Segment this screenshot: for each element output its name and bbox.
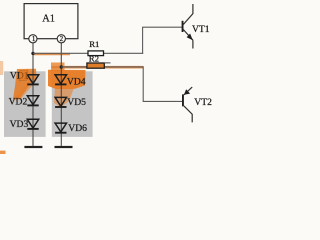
orange marker over the 1 of VD1 <box>19 70 28 81</box>
svg-text:2: 2 <box>60 35 64 43</box>
diode VD2 <box>27 96 38 106</box>
diode VD3 <box>27 119 38 129</box>
svg-text:VD2: VD2 <box>9 97 28 108</box>
resistor R2 (orange highlighted) <box>87 63 104 68</box>
faint orange smudge left edge <box>0 61 3 75</box>
resistor R1 <box>88 51 104 56</box>
transistor VT1 base bar <box>182 21 184 32</box>
bottom terminal bar column 2 <box>55 146 73 148</box>
terminal circle 2 <box>57 35 65 43</box>
node junction under terminal 1 <box>31 52 34 55</box>
orange highlighter streak tail right panel <box>54 88 74 108</box>
diode VD1 <box>27 75 38 85</box>
svg-text:VD6: VD6 <box>68 123 87 134</box>
diode VD5 <box>55 97 66 107</box>
orange highlighter streak tail left panel <box>12 82 33 101</box>
wire R2 to riser <box>104 66 143 68</box>
VT1 emitter with arrow <box>183 30 193 41</box>
diode VD6 <box>55 123 66 133</box>
svg-text:VT2: VT2 <box>194 97 212 108</box>
bottom terminal bar column 1 <box>24 146 42 148</box>
wire from terminal 1 down through diode column 1 <box>32 43 34 146</box>
page background <box>0 0 212 154</box>
transistor VT2 base bar <box>182 94 184 106</box>
wire junction1 to R1 <box>33 52 88 54</box>
svg-text:1: 1 <box>32 35 36 43</box>
orange marker on wire from terminal 1 <box>33 53 70 55</box>
orange highlighter blob over left panel <box>13 69 37 100</box>
svg-text:A1: A1 <box>42 13 55 24</box>
wire R1 to riser <box>104 52 144 54</box>
scan artifact line right of R2 label <box>104 62 111 64</box>
wire riser down to VT2 base level <box>142 67 144 102</box>
VT2 collector <box>184 106 192 123</box>
VT2 emitter with arrow toward base (PNP) <box>184 87 192 95</box>
box A1 <box>24 4 78 39</box>
gray panel behind VD4-VD6 <box>52 71 93 137</box>
svg-text:VD4: VD4 <box>67 76 86 87</box>
wire riser up to VT1 base level <box>142 27 144 54</box>
svg-text:VD3: VD3 <box>10 119 29 130</box>
wire to VT1 base <box>142 26 182 28</box>
node junction under terminal 2 <box>60 65 63 68</box>
terminal circle 1 <box>29 35 37 43</box>
svg-text:R1: R1 <box>89 39 99 49</box>
wire from terminal 2 down through diode column 2 <box>60 43 62 146</box>
wire to VT2 base <box>143 100 182 102</box>
svg-text:VT1: VT1 <box>192 24 210 35</box>
svg-text:VD5: VD5 <box>67 97 86 108</box>
wire junction2 to R2 <box>61 66 87 68</box>
orange highlighter blob over right panel <box>48 70 86 89</box>
orange marker on wire from terminal 2 to R2 and on to VT2 <box>52 66 144 69</box>
orange highlighter above right panel at junction <box>51 63 65 72</box>
orange smudge bottom-left corner <box>0 151 6 154</box>
gray panel behind VD1-VD3 <box>4 71 46 137</box>
VT1 collector <box>183 4 193 25</box>
diode VD4 <box>55 75 66 85</box>
svg-text:R2: R2 <box>89 54 99 64</box>
